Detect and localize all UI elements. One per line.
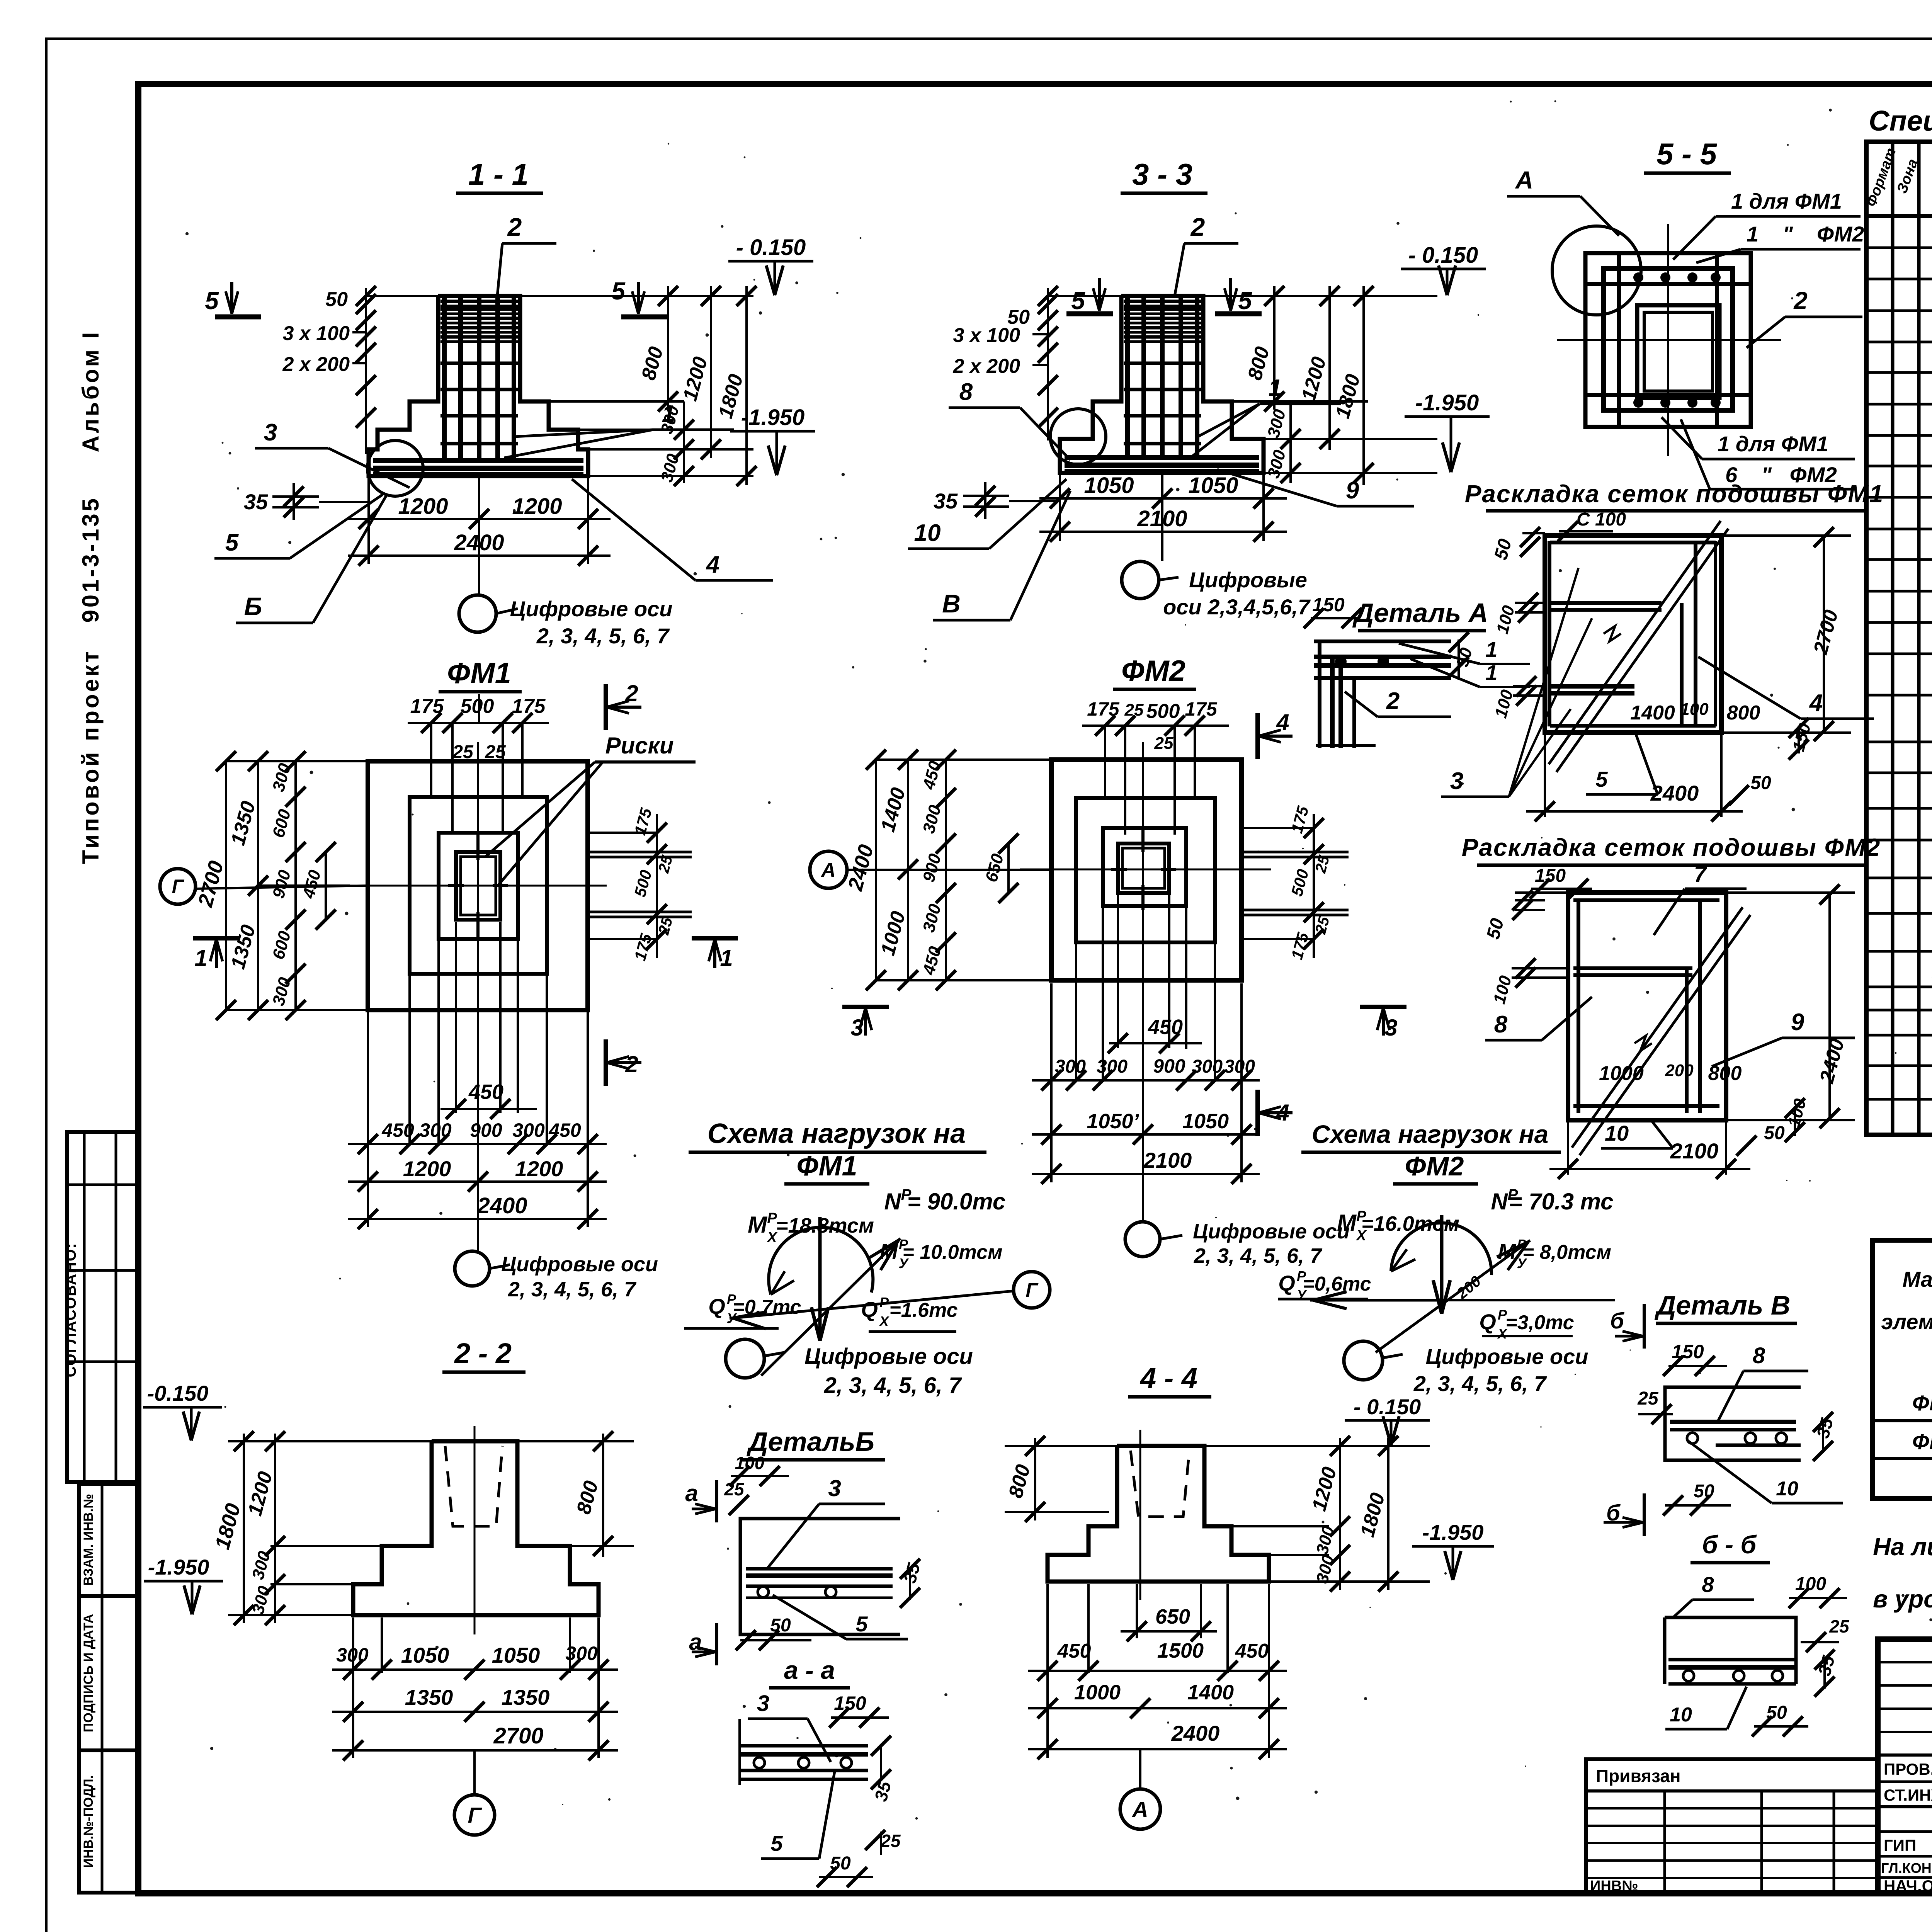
svg-text:1050’: 1050’ — [1087, 1110, 1139, 1133]
svg-text:=0,6тс: =0,6тс — [1303, 1273, 1371, 1295]
svg-text:-1.950: -1.950 — [148, 1555, 209, 1579]
svg-text:Спецификация элементов мон: Спецификация элементов монолитной констр… — [1869, 105, 1932, 137]
svg-text:2: 2 — [507, 213, 522, 241]
svg-text:1200: 1200 — [403, 1156, 451, 1181]
svg-text:-0.150: -0.150 — [147, 1381, 209, 1405]
svg-text:35: 35 — [934, 489, 958, 513]
svg-text:175: 175 — [1185, 698, 1218, 720]
svg-text:2: 2 — [1386, 688, 1400, 714]
svg-text:1 для ФМ1: 1 для ФМ1 — [1718, 432, 1828, 456]
svg-text:Q: Q — [861, 1297, 878, 1321]
svg-text:2: 2 — [1190, 213, 1205, 241]
svg-text:ФМ1: ФМ1 — [796, 1151, 857, 1182]
svg-text:3 х 100: 3 х 100 — [953, 324, 1020, 347]
svg-text:1000: 1000 — [1599, 1062, 1644, 1085]
svg-text:N: N — [1491, 1189, 1508, 1214]
svg-text:300: 300 — [1097, 1056, 1128, 1077]
svg-text:1200: 1200 — [398, 494, 448, 519]
svg-text:б - б: б - б — [1702, 1530, 1757, 1559]
svg-text:Типовой проект 901-3-135: Типовой проект 901-3-135 Альбом I — [78, 330, 104, 864]
svg-text:1 " ФМ2: 1 " ФМ2 — [1747, 222, 1864, 246]
svg-text:-1.950: -1.950 — [741, 405, 804, 430]
svg-text:1050: 1050 — [1084, 473, 1134, 498]
svg-text:Цифровые оси: Цифровые оси — [1193, 1220, 1350, 1243]
svg-text:А: А — [1131, 1797, 1148, 1822]
svg-text:150: 150 — [1312, 594, 1345, 616]
svg-text:= 8,0тсм: = 8,0тсм — [1522, 1241, 1611, 1264]
svg-text:Раскладка сеток подошвы ФМ1: Раскладка сеток подошвы ФМ1 — [1465, 480, 1884, 508]
svg-text:ВЗАМ. ИНВ.№: ВЗАМ. ИНВ.№ — [81, 1494, 96, 1586]
svg-text:650: 650 — [1155, 1605, 1190, 1628]
svg-text:150: 150 — [1535, 866, 1566, 886]
svg-text:300: 300 — [565, 1643, 598, 1664]
svg-text:5: 5 — [611, 277, 626, 305]
svg-text:50: 50 — [1694, 1481, 1714, 1502]
svg-text:Схема нагрузок на: Схема нагрузок на — [1312, 1120, 1549, 1148]
svg-text:5: 5 — [1238, 287, 1252, 315]
svg-text:1: 1 — [720, 945, 733, 971]
svg-text:5: 5 — [855, 1612, 868, 1636]
load scheme FM2 — [1278, 1120, 1615, 1396]
plan FM2 — [810, 655, 1406, 1267]
svg-text:Г: Г — [172, 876, 185, 897]
svg-text:2, 3, 4, 5, 6, 7: 2, 3, 4, 5, 6, 7 — [1413, 1371, 1547, 1396]
svg-text:- 0.150: - 0.150 — [1354, 1395, 1421, 1419]
svg-text:4: 4 — [706, 551, 719, 578]
svg-text:= 70.3 тс: = 70.3 тс — [1509, 1189, 1613, 1214]
svg-text:ГЛ.КОНСТР: ГЛ.КОНСТР — [1881, 1860, 1932, 1876]
svg-text:5: 5 — [770, 1831, 783, 1855]
svg-text:300: 300 — [512, 1119, 545, 1141]
svg-text:2, 3, 4, 5, 6, 7: 2, 3, 4, 5, 6, 7 — [1194, 1244, 1323, 1267]
svg-text:1050: 1050 — [1188, 473, 1238, 498]
svg-text:N: N — [884, 1189, 901, 1214]
svg-text:= 90.0тс: = 90.0тс — [907, 1189, 1005, 1214]
section b-b(б-б) — [1665, 1530, 1850, 1736]
svg-text:Цифровые оси: Цифровые оси — [501, 1253, 658, 1276]
svg-text:25: 25 — [724, 1479, 745, 1499]
svg-text:=18.8тсм: =18.8тсм — [776, 1214, 874, 1237]
note text — [1873, 1533, 1932, 1613]
svg-text:3: 3 — [828, 1475, 841, 1501]
steel summary table — [1872, 1187, 1932, 1498]
vzam inv box — [79, 1484, 138, 1596]
svg-text:500: 500 — [1146, 700, 1180, 723]
svg-text:Q: Q — [1278, 1271, 1295, 1295]
svg-text:5: 5 — [205, 287, 219, 315]
svg-text:ФМ1: ФМ1 — [1912, 1391, 1932, 1415]
svg-text:50: 50 — [770, 1615, 791, 1636]
svg-text:3 - 3: 3 - 3 — [1132, 157, 1192, 191]
detail A — [1304, 594, 1530, 748]
svg-text:= 10.0тсм: = 10.0тсм — [903, 1241, 1003, 1264]
svg-text:Цифровые оси: Цифровые оси — [510, 597, 673, 621]
svg-text:450: 450 — [381, 1119, 414, 1141]
svg-text:9: 9 — [1791, 1009, 1804, 1036]
svg-text:2700: 2700 — [493, 1723, 543, 1748]
svg-text:Цифровые оси: Цифровые оси — [804, 1344, 973, 1369]
svg-text:50: 50 — [1764, 1123, 1785, 1143]
inv podl box — [79, 1750, 138, 1893]
svg-text:НАЧ.ОТД.: НАЧ.ОТД. — [1884, 1877, 1932, 1895]
svg-text:Раскладка сеток подошвы ФМ2: Раскладка сеток подошвы ФМ2 — [1462, 833, 1881, 861]
svg-text:1 для ФМ1: 1 для ФМ1 — [1731, 189, 1842, 213]
svg-text:Деталь А: Деталь А — [1352, 598, 1488, 628]
svg-text:3 х 100: 3 х 100 — [283, 322, 350, 345]
svg-text:Схема нагрузок на: Схема нагрузок на — [707, 1118, 966, 1149]
svg-text:в уровне верха фундамента: в уровне верха фундамента (.- 0,150; - 0… — [1873, 1585, 1932, 1613]
svg-text:-1.950: -1.950 — [1422, 1520, 1484, 1544]
svg-text:1500: 1500 — [1157, 1639, 1204, 1662]
svg-text:В: В — [942, 589, 961, 618]
svg-text:100: 100 — [1680, 700, 1709, 719]
section 2-2 — [143, 1337, 634, 1835]
svg-text:100: 100 — [1795, 1574, 1826, 1594]
section a-a — [740, 1656, 901, 1887]
svg-text:Марка: Марка — [1903, 1267, 1932, 1291]
svg-text:M: M — [748, 1212, 768, 1238]
svg-text:100: 100 — [735, 1453, 765, 1473]
section 4-4 — [1004, 1362, 1494, 1829]
svg-text:1350: 1350 — [502, 1685, 550, 1709]
svg-text:оси 2,3,4,5,6,7: оси 2,3,4,5,6,7 — [1163, 595, 1311, 619]
svg-text:На листах КЖ 13 ÷ КЖ-21 уси: На листах КЖ 13 ÷ КЖ-21 усилия на фундам… — [1873, 1533, 1932, 1561]
svg-text:ФМ1: ФМ1 — [447, 657, 511, 690]
svg-text:25: 25 — [1829, 1616, 1850, 1636]
svg-text:2 - 2: 2 - 2 — [454, 1337, 512, 1369]
svg-text:Цифровые: Цифровые — [1189, 568, 1307, 592]
svg-text:элемента: элемента — [1881, 1310, 1932, 1334]
svg-text:Привязан: Привязан — [1596, 1766, 1681, 1786]
svg-text:1200: 1200 — [512, 494, 562, 519]
svg-text:Цифровые оси: Цифровые оси — [1426, 1344, 1588, 1369]
svg-text:2, 3, 4, 5, 6, 7: 2, 3, 4, 5, 6, 7 — [824, 1373, 962, 1398]
svg-text:СОГЛАСОВАНО:: СОГЛАСОВАНО: — [62, 1243, 79, 1378]
svg-text:Риски: Риски — [605, 733, 673, 759]
svg-text:5: 5 — [1071, 287, 1085, 315]
svg-text:А: А — [1515, 166, 1533, 194]
svg-text:С 100: С 100 — [1577, 509, 1626, 530]
svg-text:СТ.ИНЖ.: СТ.ИНЖ. — [1884, 1786, 1932, 1804]
svg-text:450: 450 — [1057, 1640, 1091, 1662]
svg-text:ГИП: ГИП — [1884, 1836, 1916, 1854]
svg-text:M: M — [1337, 1210, 1357, 1236]
detail V(В) — [1604, 1290, 1843, 1536]
svg-text:900: 900 — [1153, 1055, 1185, 1077]
svg-text:Деталь В: Деталь В — [1655, 1290, 1791, 1320]
section 3-3 — [908, 157, 1490, 620]
svg-text:1000: 1000 — [1074, 1681, 1121, 1704]
podpis data box — [79, 1596, 138, 1750]
plan FM1 — [160, 657, 738, 1301]
svg-text:1400: 1400 — [1187, 1681, 1234, 1704]
svg-text:Г: Г — [468, 1803, 483, 1828]
svg-text:1050: 1050 — [492, 1643, 540, 1667]
mesh layout FM2 — [1462, 833, 1881, 1179]
svg-text:25: 25 — [1154, 734, 1173, 753]
load scheme FM1 — [684, 1118, 1050, 1398]
svg-text:150: 150 — [834, 1692, 866, 1714]
svg-text:ИНВ.№-ПОДЛ.: ИНВ.№-ПОДЛ. — [81, 1775, 96, 1868]
svg-text:1050: 1050 — [401, 1643, 449, 1667]
svg-text:а: а — [685, 1480, 698, 1506]
svg-text:500: 500 — [461, 695, 494, 718]
svg-text:10: 10 — [914, 520, 941, 546]
svg-text:300: 300 — [1192, 1056, 1223, 1077]
section 1-1 — [205, 157, 815, 648]
svg-text:ИНВ№: ИНВ№ — [1590, 1878, 1638, 1894]
svg-text:=3,0тс: =3,0тс — [1505, 1311, 1574, 1334]
svg-text:2400: 2400 — [1171, 1721, 1220, 1745]
svg-text:5: 5 — [1595, 767, 1608, 791]
svg-text:- 0.150: - 0.150 — [1408, 243, 1478, 268]
svg-text:Q: Q — [708, 1294, 725, 1318]
svg-text:1200: 1200 — [515, 1156, 563, 1181]
svg-text:800: 800 — [1708, 1062, 1742, 1085]
svg-text:1400: 1400 — [1630, 702, 1675, 724]
svg-text:3: 3 — [757, 1691, 769, 1716]
svg-text:2100: 2100 — [1143, 1148, 1192, 1172]
svg-text:4 - 4: 4 - 4 — [1139, 1362, 1197, 1394]
svg-text:1350: 1350 — [405, 1685, 453, 1709]
svg-text:7: 7 — [1694, 862, 1708, 887]
svg-text:50: 50 — [325, 288, 348, 311]
svg-text:2 х 200: 2 х 200 — [282, 353, 350, 376]
svg-text:ДетальБ: ДетальБ — [747, 1427, 874, 1457]
privyazan table — [1586, 1759, 1878, 1894]
svg-text:1 - 1: 1 - 1 — [468, 157, 529, 191]
svg-text:Г: Г — [1026, 1279, 1039, 1301]
svg-text:1050: 1050 — [1182, 1110, 1229, 1133]
svg-text:X: X — [879, 1313, 889, 1329]
svg-text:50: 50 — [1750, 773, 1771, 793]
section 5-5 — [1507, 137, 1864, 489]
svg-text:2400: 2400 — [477, 1193, 527, 1218]
svg-text:5 - 5: 5 - 5 — [1656, 137, 1718, 171]
svg-text:2: 2 — [1793, 287, 1808, 315]
svg-text:25: 25 — [1637, 1388, 1659, 1409]
svg-text:8: 8 — [1494, 1011, 1508, 1038]
svg-text:800: 800 — [1727, 702, 1760, 724]
svg-text:150: 150 — [1672, 1341, 1704, 1362]
svg-text:450: 450 — [1235, 1640, 1269, 1662]
svg-text:4: 4 — [1809, 690, 1823, 716]
svg-text:-1.950: -1.950 — [1415, 390, 1479, 415]
svg-text:ФМ2: ФМ2 — [1912, 1429, 1932, 1454]
svg-text:2: 2 — [625, 1051, 638, 1077]
svg-text:200: 200 — [1665, 1061, 1694, 1080]
svg-text:2100: 2100 — [1670, 1139, 1719, 1163]
svg-text:3: 3 — [264, 419, 277, 446]
specification table — [1863, 105, 1932, 1135]
svg-text:10: 10 — [1605, 1121, 1629, 1145]
svg-text:- 0.150: - 0.150 — [736, 235, 806, 260]
svg-text:2, 3, 4, 5, 6, 7: 2, 3, 4, 5, 6, 7 — [508, 1278, 637, 1301]
svg-text:1: 1 — [1485, 637, 1497, 662]
svg-text:450: 450 — [468, 1080, 503, 1104]
svg-text:2 х 200: 2 х 200 — [953, 355, 1020, 378]
svg-text:ПОДПИСЬ И ДАТА: ПОДПИСЬ И ДАТА — [81, 1614, 96, 1732]
svg-text:Б: Б — [244, 592, 262, 621]
mesh layout FM1 — [1441, 480, 1884, 821]
title block — [1878, 1639, 1932, 1924]
svg-text:300: 300 — [336, 1644, 369, 1666]
svg-text:8: 8 — [1702, 1572, 1714, 1597]
svg-text:2400: 2400 — [1650, 781, 1699, 805]
svg-text:10: 10 — [1670, 1704, 1692, 1726]
soglasovano box — [67, 1132, 138, 1482]
svg-text:8: 8 — [1753, 1343, 1765, 1368]
svg-text:900: 900 — [470, 1119, 502, 1141]
svg-text:А: А — [820, 859, 836, 881]
svg-text:5: 5 — [225, 529, 239, 556]
svg-text:2, 3, 4, 5, 6, 7: 2, 3, 4, 5, 6, 7 — [536, 624, 670, 648]
svg-text:8: 8 — [959, 379, 973, 405]
svg-text:б: б — [1610, 1308, 1625, 1333]
svg-text:10: 10 — [1776, 1478, 1798, 1500]
svg-text:Q: Q — [1479, 1310, 1496, 1334]
svg-text:ПРОВ.: ПРОВ. — [1884, 1760, 1932, 1778]
svg-text:а - а: а - а — [784, 1656, 835, 1684]
svg-text:35: 35 — [244, 490, 268, 514]
detail B(Б) — [685, 1427, 924, 1665]
svg-text:3: 3 — [1450, 768, 1463, 794]
svg-text:1: 1 — [194, 945, 207, 971]
svg-text:ФМ2: ФМ2 — [1405, 1151, 1464, 1181]
svg-text:ФМ2: ФМ2 — [1121, 655, 1185, 687]
